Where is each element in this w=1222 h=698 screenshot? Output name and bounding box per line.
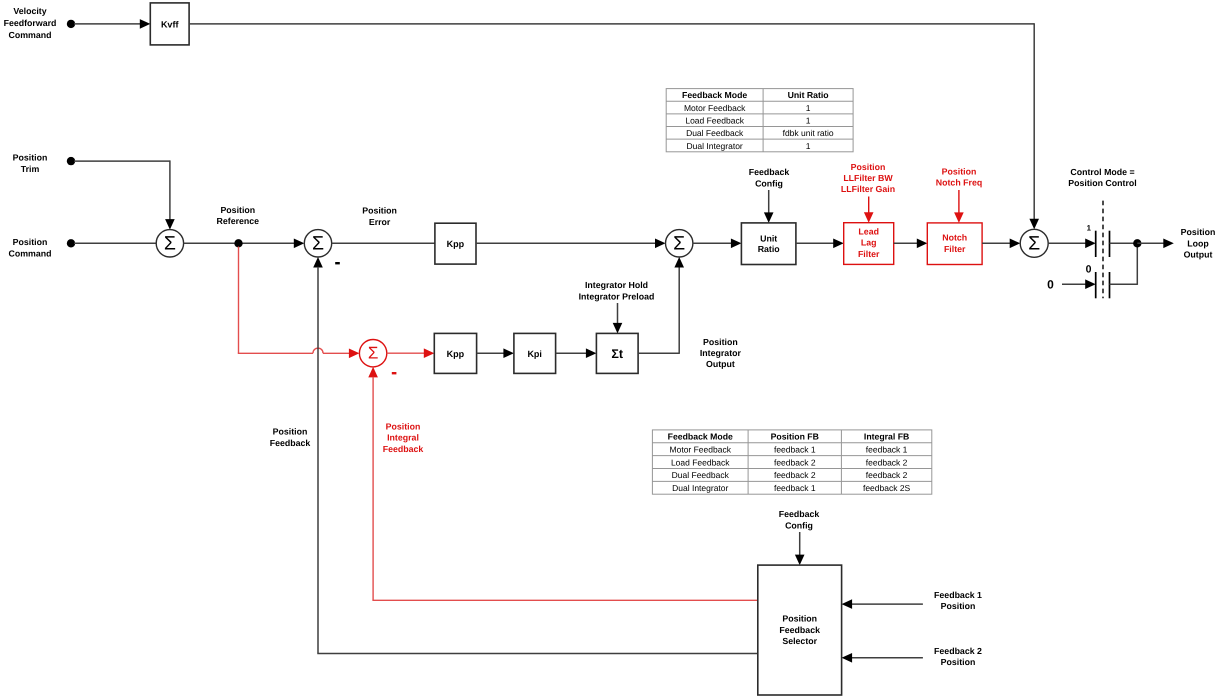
svg-text:Trim: Trim (21, 164, 40, 174)
svg-text:Feedback: Feedback (779, 509, 820, 519)
wire position trim to summing junction S1 (74, 160, 175, 229)
node Position Error label (362, 205, 397, 227)
wire zero input to switch contact 0 (1062, 279, 1096, 289)
svg-text:Position: Position (703, 337, 738, 347)
svg-text:LLFilter BW: LLFilter BW (843, 173, 893, 183)
svg-text:Feedback: Feedback (383, 444, 424, 454)
wire Lead Lag Filter to Notch Filter (894, 239, 928, 249)
svg-text:0: 0 (1047, 278, 1054, 292)
wire Feedback 1 Position input (842, 599, 923, 609)
svg-text:LLFilter Gain: LLFilter Gain (841, 184, 895, 194)
svg-text:Position: Position (220, 205, 255, 215)
summing junction S3 (666, 230, 693, 257)
svg-text:Config: Config (755, 178, 783, 188)
svg-text:feedback 2: feedback 2 (866, 470, 908, 480)
node Velocity Feedforward Command terminal dot (67, 20, 75, 28)
svg-text:Motor Feedback: Motor Feedback (670, 444, 732, 454)
wire S5 output to integral Kpp (red) (387, 348, 435, 358)
node Feedback Config label (selector) (779, 509, 820, 531)
svg-text:Position: Position (942, 166, 977, 176)
table feedback-mode position-fb integral-fb (652, 430, 931, 494)
svg-text:1: 1 (806, 141, 811, 151)
svg-text:Position: Position (13, 152, 48, 162)
block integrator sigma-t (596, 333, 638, 373)
node Position Feedback label (270, 426, 311, 448)
svg-text:Motor Feedback: Motor Feedback (684, 103, 746, 113)
node Position Command terminal dot (67, 239, 75, 247)
svg-text:Kvff: Kvff (161, 19, 180, 29)
svg-text:Kpp: Kpp (447, 239, 465, 249)
svg-text:Position FB: Position FB (771, 432, 819, 442)
svg-text:1: 1 (806, 116, 811, 126)
svg-text:Feedback: Feedback (270, 438, 311, 448)
block Kpp integral gain (434, 333, 476, 373)
summing junction S2 (304, 230, 331, 257)
svg-text:Feedback Mode: Feedback Mode (682, 90, 747, 100)
summing junction S1 (156, 230, 183, 257)
svg-text:Position: Position (851, 162, 886, 172)
svg-text:Σ: Σ (1028, 232, 1040, 254)
node Control Mode label (1068, 167, 1136, 188)
svg-text:Position: Position (386, 421, 421, 431)
svg-text:Output: Output (1184, 250, 1213, 260)
svg-text:Integrator Hold: Integrator Hold (585, 280, 648, 290)
svg-text:Notch Freq: Notch Freq (936, 178, 982, 188)
switch contact 0 bars (1096, 272, 1110, 298)
svg-text:fdbk unit ratio: fdbk unit ratio (783, 128, 834, 138)
svg-text:Unit: Unit (760, 234, 777, 244)
svg-text:Feedback 1: Feedback 1 (934, 590, 982, 600)
svg-text:feedback 1: feedback 1 (866, 444, 908, 454)
svg-text:Command: Command (8, 249, 51, 259)
block Unit Ratio (741, 223, 796, 265)
svg-text:Reference: Reference (217, 216, 260, 226)
svg-text:Position: Position (273, 426, 308, 436)
svg-text:Filter: Filter (858, 249, 880, 259)
wire feedforward input (74, 19, 150, 29)
svg-text:Load Feedback: Load Feedback (685, 116, 744, 126)
node Integrator Hold Preload label (579, 280, 655, 302)
node output junction dot (1133, 239, 1141, 247)
wire integrator hold to integrator (613, 303, 623, 333)
svg-text:Integrator Preload: Integrator Preload (579, 292, 655, 302)
svg-text:Feedback Mode: Feedback Mode (668, 432, 733, 442)
svg-text:feedback 2: feedback 2 (774, 457, 816, 467)
svg-text:Feedback 2: Feedback 2 (934, 646, 982, 656)
wire feedback config to Unit Ratio (764, 190, 774, 223)
wire Unit Ratio to Lead Lag Filter (796, 239, 844, 249)
svg-text:Config: Config (785, 520, 813, 530)
switch dashed selector line (1102, 201, 1104, 299)
block Kvff (150, 3, 189, 45)
svg-text:Filter: Filter (944, 244, 966, 254)
svg-text:Position: Position (941, 601, 976, 611)
wire Feedback 2 Position input (842, 653, 923, 663)
node Velocity Feedforward Command label (4, 6, 57, 40)
svg-text:Command: Command (8, 30, 51, 40)
svg-text:Lag: Lag (861, 238, 877, 248)
node Feedback 1 Position label (934, 590, 982, 611)
node Position Trim label (13, 152, 48, 174)
node Position Reference label (217, 205, 260, 226)
switch contact 1 bars (1096, 231, 1110, 257)
svg-text:Feedback: Feedback (779, 625, 820, 635)
svg-text:Position Control: Position Control (1068, 178, 1136, 188)
svg-text:Dual Feedback: Dual Feedback (672, 470, 730, 480)
svg-text:Dual Integrator: Dual Integrator (672, 483, 728, 493)
svg-text:Lead: Lead (858, 226, 879, 236)
node Position Integrator Output label (700, 337, 742, 369)
node Feedback 2 Position label (934, 646, 982, 667)
svg-text:Dual Feedback: Dual Feedback (686, 128, 744, 138)
svg-text:Position: Position (1181, 227, 1216, 237)
svg-text:Notch: Notch (942, 233, 967, 243)
svg-text:Integrator: Integrator (700, 348, 742, 358)
wire S1 output to S2 (184, 239, 305, 249)
node Position Reference junction dot (234, 239, 242, 247)
wire Notch Filter to S4 (982, 239, 1020, 249)
wire S3 output to Unit Ratio (693, 239, 742, 249)
svg-text:Unit Ratio: Unit Ratio (788, 90, 829, 100)
svg-text:Kpp: Kpp (447, 349, 465, 359)
node Position Trim terminal dot (67, 157, 75, 165)
summing junction S5 (red) (359, 340, 386, 367)
wire llfilter params to Lead Lag Filter (864, 197, 874, 223)
node S2 minus sign (335, 262, 340, 264)
svg-text:Σ: Σ (312, 232, 324, 254)
svg-text:feedback 2: feedback 2 (774, 470, 816, 480)
svg-text:0: 0 (1086, 264, 1092, 276)
node Position Loop Output label (1181, 227, 1216, 260)
svg-text:Integral: Integral (387, 433, 419, 443)
svg-text:feedback 1: feedback 1 (774, 444, 816, 454)
svg-text:Control Mode =: Control Mode = (1070, 167, 1134, 177)
node Position LLFilter BW Gain label (841, 162, 895, 194)
svg-text:Feedforward: Feedforward (4, 18, 57, 28)
svg-text:1: 1 (1087, 224, 1092, 233)
block Position Feedback Selector (758, 565, 842, 695)
wire Kvff output to summing junction S4 (189, 23, 1039, 229)
node Position Notch Freq label (936, 166, 982, 187)
node switch position 0 label (1086, 264, 1092, 276)
svg-text:Output: Output (706, 359, 735, 369)
svg-text:Load Feedback: Load Feedback (671, 457, 730, 467)
svg-text:Position: Position (941, 657, 976, 667)
node Position Integral Feedback label (383, 421, 424, 454)
wire switch contact 0 output (1110, 243, 1138, 285)
block Lead Lag Filter (844, 223, 894, 265)
node zero input label (1047, 278, 1054, 292)
svg-text:Selector: Selector (782, 636, 817, 646)
svg-text:Σ: Σ (164, 232, 176, 254)
wire position feedback from selector to S2 (313, 257, 758, 654)
svg-text:Kpi: Kpi (527, 349, 542, 359)
wire notch freq to Notch Filter (954, 190, 964, 223)
svg-text:Integral FB: Integral FB (864, 432, 909, 442)
svg-text:Position: Position (362, 205, 397, 215)
wire integral Kpp to Kpi (477, 348, 514, 358)
table feedback-mode unit-ratio (666, 89, 853, 152)
node Feedback Config label (unit ratio) (749, 167, 790, 188)
block Kpi (514, 333, 556, 373)
wire switch contact 1 output (1110, 242, 1138, 244)
svg-text:Ratio: Ratio (758, 244, 781, 254)
wire S2 output to Kpp (332, 242, 435, 244)
svg-text:1: 1 (806, 103, 811, 113)
svg-text:feedback 1: feedback 1 (774, 483, 816, 493)
wire S4 output to switch contact 1 (1048, 239, 1096, 249)
svg-text:Feedback: Feedback (749, 167, 790, 177)
wire position command to S1 (74, 242, 156, 244)
svg-text:Σ: Σ (673, 232, 685, 254)
node Position Command label (8, 237, 51, 259)
svg-text:Position: Position (13, 237, 48, 247)
svg-text:Error: Error (369, 217, 391, 227)
svg-text:Σt: Σt (611, 347, 624, 361)
block Kpp position gain (435, 223, 476, 264)
wire Kpi to integrator (556, 348, 597, 358)
wire position loop output (1137, 239, 1174, 249)
wire position reference to integral sum S5 (red) (238, 247, 360, 359)
svg-text:Velocity: Velocity (13, 6, 46, 16)
wire feedback config to selector (795, 532, 805, 565)
wire position integral feedback from selector to S5 (red) (368, 367, 758, 600)
wire integrator output to S3 (638, 257, 684, 354)
wire Kpp output to S3 (476, 239, 666, 249)
svg-text:feedback 2: feedback 2 (866, 457, 908, 467)
svg-text:Σ: Σ (368, 344, 379, 363)
svg-text:feedback 2S: feedback 2S (863, 483, 911, 493)
block Notch Filter (927, 223, 982, 265)
svg-text:Loop: Loop (1187, 238, 1209, 248)
node switch position 1 label (1087, 224, 1092, 233)
svg-text:Position: Position (782, 614, 817, 624)
node S5 minus sign (392, 372, 397, 374)
svg-text:Dual Integrator: Dual Integrator (687, 141, 743, 151)
summing junction S4 (1020, 229, 1048, 257)
